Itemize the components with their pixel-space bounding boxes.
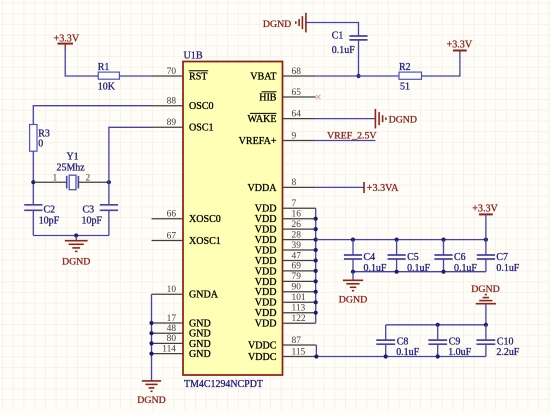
pin 90 VDD (right)	[283, 291, 316, 293]
svg-text:VREF_2.5V: VREF_2.5V	[327, 131, 377, 142]
wire VDDC bottom rail	[316, 356, 486, 358]
svg-text:88: 88	[167, 97, 177, 107]
pin 28 VDD (right)	[283, 239, 316, 241]
svg-text:69: 69	[292, 262, 302, 272]
node VDD bus junction	[314, 300, 318, 304]
svg-text:VDD: VDD	[255, 319, 277, 330]
node VDD bus junction	[314, 227, 318, 231]
svg-text:80: 80	[167, 334, 177, 344]
pin 48 GND (left)	[152, 332, 184, 334]
no-connect mark pin 65	[316, 95, 320, 99]
node VDD bus junction	[314, 248, 318, 252]
resistor R2 51	[399, 72, 422, 79]
svg-text:65: 65	[292, 88, 302, 98]
wire R1 to RST pin	[119, 75, 151, 77]
svg-text:66: 66	[167, 210, 177, 220]
svg-text:GNDA: GNDA	[189, 290, 219, 301]
svg-text:C10: C10	[497, 337, 514, 348]
svg-text:7: 7	[292, 199, 297, 209]
svg-text:VDD: VDD	[255, 277, 277, 288]
svg-text:DGND: DGND	[263, 19, 291, 30]
svg-text:OSC1: OSC1	[189, 123, 214, 134]
wire top DGND to C1	[307, 23, 359, 36]
resistor R3	[30, 125, 37, 152]
node rail junctions	[351, 270, 355, 274]
svg-text:+3.3V: +3.3V	[472, 203, 498, 214]
wire VDD feed to caps	[316, 239, 486, 241]
svg-text:C6: C6	[454, 252, 466, 263]
svg-text:R1: R1	[98, 62, 110, 73]
node cap-top junction	[351, 238, 355, 242]
pin 113 VDD (right)	[283, 312, 316, 314]
capacitor C1 0.1uF	[349, 35, 367, 37]
node VDD bus junction	[314, 311, 318, 315]
pin 115 VDDC (right)	[283, 356, 316, 358]
svg-text:C4: C4	[364, 252, 376, 263]
ground DGND (WAKE, horizontal)	[374, 109, 376, 128]
pin 88 OSC0 (left)	[152, 105, 184, 107]
svg-text:C2: C2	[44, 204, 56, 215]
svg-text:U1B: U1B	[184, 51, 203, 62]
pin 67 XOSC1 (left)	[152, 240, 184, 242]
node VDD bus junction	[314, 217, 318, 221]
wire VDDC 87 drop	[315, 344, 318, 346]
svg-text:9: 9	[292, 131, 297, 141]
pin 114 GND (left)	[152, 353, 184, 355]
wire crystal ground bus	[33, 235, 109, 237]
pin 80 GND (left)	[152, 342, 184, 344]
ground DGND (bottom left)	[142, 380, 161, 382]
svg-text:79: 79	[292, 272, 302, 282]
node GND bus junction	[149, 331, 153, 335]
svg-text:113: 113	[292, 304, 306, 314]
svg-text:122: 122	[292, 314, 306, 324]
svg-text:90: 90	[292, 283, 302, 293]
svg-text:DGND: DGND	[62, 257, 90, 268]
svg-text:101: 101	[292, 293, 306, 303]
node VDD bus junction	[314, 279, 318, 283]
svg-text:10pF: 10pF	[82, 216, 103, 227]
svg-text:+3.3V: +3.3V	[447, 39, 473, 50]
node VBAT/C1 junction	[356, 74, 360, 78]
svg-text:115: 115	[292, 347, 306, 357]
node VDD bus junction	[314, 238, 318, 242]
svg-text:89: 89	[167, 118, 177, 128]
svg-text:VDD: VDD	[255, 308, 277, 319]
op IC U1B TM4C1294NCPDT body	[183, 62, 283, 376]
wire C1 down to VBAT net	[358, 40, 360, 76]
svg-text:Y1: Y1	[67, 152, 79, 163]
svg-text:C3: C3	[83, 204, 95, 215]
power +3.3VA (bar)	[363, 182, 365, 193]
svg-text:VDDA: VDDA	[247, 183, 277, 194]
ground DGND (under C4)	[352, 272, 354, 281]
svg-text:2.2uF: 2.2uF	[496, 347, 519, 358]
node cap-top junction	[395, 238, 399, 242]
svg-text:51: 51	[400, 81, 410, 92]
capacitor C3 10pF	[100, 204, 118, 206]
pin 65 HIB (right)	[283, 96, 316, 98]
capacitor C10 2.2uF	[485, 325, 487, 340]
node ground-bus junction	[74, 233, 78, 237]
svg-text:VDD: VDD	[255, 256, 277, 267]
svg-text:0: 0	[38, 139, 43, 150]
capacitor C4 0.1uF	[352, 240, 354, 255]
wire VBAT net to R2	[316, 75, 399, 77]
svg-text:RST: RST	[189, 71, 207, 82]
resistor R1	[98, 72, 119, 79]
capacitor C5 0.1uF	[396, 240, 398, 255]
node VDD bus junction	[314, 269, 318, 273]
svg-text:28: 28	[292, 230, 302, 240]
svg-text:114: 114	[162, 344, 176, 354]
svg-text:VDD: VDD	[255, 235, 277, 246]
svg-text:TM4C1294NCPDT: TM4C1294NCPDT	[184, 379, 263, 390]
svg-text:DGND: DGND	[389, 115, 417, 126]
node crystal-left junction	[31, 180, 35, 184]
svg-text:64: 64	[292, 109, 302, 119]
wire GNDA/GND bus (left)	[151, 294, 153, 380]
svg-text:OSC0: OSC0	[189, 101, 214, 112]
pin 10 GNDA (left)	[152, 293, 184, 295]
svg-text:C5: C5	[407, 252, 419, 263]
svg-text:VBAT: VBAT	[250, 71, 276, 82]
pin 17 GND (left)	[152, 322, 184, 324]
svg-text:VDD: VDD	[255, 204, 277, 215]
svg-text:VDD: VDD	[255, 225, 277, 236]
svg-text:HIB: HIB	[259, 92, 277, 103]
svg-text:25Mhz: 25Mhz	[57, 162, 86, 173]
svg-text:8: 8	[292, 178, 297, 188]
node top-bus junctions	[436, 323, 440, 327]
wire R2 to +3.3V	[422, 51, 460, 77]
node +3.3V/C7 junction	[484, 238, 488, 242]
svg-text:+3.3VA: +3.3VA	[367, 183, 399, 194]
svg-text:67: 67	[167, 231, 177, 241]
pin 79 VDD (right)	[283, 280, 316, 282]
svg-text:0.1uF: 0.1uF	[332, 45, 355, 56]
wire +3.3V down to R1 row	[65, 48, 98, 76]
svg-text:C7: C7	[496, 252, 508, 263]
svg-text:26: 26	[292, 220, 302, 230]
svg-text:39: 39	[292, 241, 302, 251]
svg-text:C8: C8	[397, 337, 409, 348]
ground DGND (under crystal)	[75, 236, 77, 241]
svg-text:WAKE: WAKE	[247, 114, 276, 125]
svg-text:DGND: DGND	[137, 395, 165, 406]
node crystal-right junction	[107, 180, 111, 184]
wire VDDA net	[316, 186, 364, 188]
svg-text:VREFA+: VREFA+	[239, 136, 277, 147]
svg-text:16: 16	[292, 210, 302, 220]
wire R3 bottom to crystal row and down to C2	[32, 151, 34, 204]
pin 89 OSC1 (left)	[152, 126, 184, 128]
capacitor C6 0.1uF	[443, 240, 445, 255]
pin 26 VDD (right)	[283, 228, 316, 230]
svg-text:87: 87	[292, 336, 302, 346]
wire OSC0 net (pin 88 to left, down to R3)	[33, 106, 151, 125]
node VDD bus junction	[314, 290, 318, 294]
pin 8 VDDA (right)	[283, 186, 316, 188]
svg-text:70: 70	[167, 67, 177, 77]
svg-text:47: 47	[292, 251, 302, 261]
svg-text:DGND: DGND	[471, 284, 499, 295]
capacitor C2 10pF	[24, 204, 42, 206]
svg-text:17: 17	[167, 314, 177, 324]
pin 9 VREFA+ (right)	[283, 140, 316, 142]
node VDDC junctions	[314, 354, 318, 358]
svg-text:R2: R2	[399, 62, 411, 73]
pin 69 VDD (right)	[283, 270, 316, 272]
pin 122 VDD (right)	[283, 322, 316, 324]
wire VREFA+ net	[316, 140, 376, 142]
svg-text:VDDC: VDDC	[248, 352, 277, 363]
pin 39 VDD (right)	[283, 249, 316, 251]
svg-text:VDD: VDD	[255, 298, 277, 309]
capacitor C9 1.0uF	[437, 325, 439, 340]
pin 47 VDD (right)	[283, 260, 316, 262]
svg-text:XOSC0: XOSC0	[189, 214, 221, 225]
svg-text:C9: C9	[449, 337, 461, 348]
pin 68 VBAT (right)	[283, 75, 316, 77]
wire cap ground rail	[353, 271, 486, 273]
svg-text:10pF: 10pF	[39, 216, 60, 227]
svg-text:10K: 10K	[98, 81, 116, 92]
node GND bus junction	[149, 321, 153, 325]
svg-text:VDD: VDD	[255, 245, 277, 256]
pin 16 VDD (right)	[283, 218, 316, 220]
pin 64 WAKE (right)	[283, 118, 316, 120]
node VDD bus junction	[314, 258, 318, 262]
wire VDD vertical bus	[315, 208, 317, 323]
pin 7 VDD (right)	[283, 207, 316, 209]
svg-text:0.1uF: 0.1uF	[496, 263, 519, 274]
svg-text:VDD: VDD	[255, 214, 277, 225]
svg-text:VDDC: VDDC	[248, 340, 277, 351]
svg-text:C1: C1	[332, 30, 344, 41]
node GND bus junction	[149, 352, 153, 356]
pin 101 VDD (right)	[283, 301, 316, 303]
svg-text:DGND: DGND	[339, 294, 367, 305]
svg-text:68: 68	[292, 67, 302, 77]
svg-text:GND: GND	[189, 349, 211, 360]
svg-text:48: 48	[167, 324, 177, 334]
node cap-top junction	[441, 238, 445, 242]
capacitor C8 0.1uF	[385, 325, 387, 340]
wire C8-C10 top bus	[386, 324, 486, 326]
wire OSC1 net (pin 89 left, down through C3)	[109, 127, 152, 204]
pin 87 VDDC (right)	[283, 344, 316, 346]
svg-text:VDD: VDD	[255, 266, 277, 277]
pin 66 XOSC0 (left)	[152, 218, 184, 220]
svg-text:VDD: VDD	[255, 287, 277, 298]
wire WAKE net to DGND	[316, 118, 376, 120]
node GND bus junction	[149, 341, 153, 345]
svg-text:XOSC1: XOSC1	[189, 236, 221, 247]
pin 70 RST (left)	[152, 75, 184, 77]
svg-text:10: 10	[167, 285, 177, 295]
capacitor C7 0.1uF	[485, 240, 487, 255]
